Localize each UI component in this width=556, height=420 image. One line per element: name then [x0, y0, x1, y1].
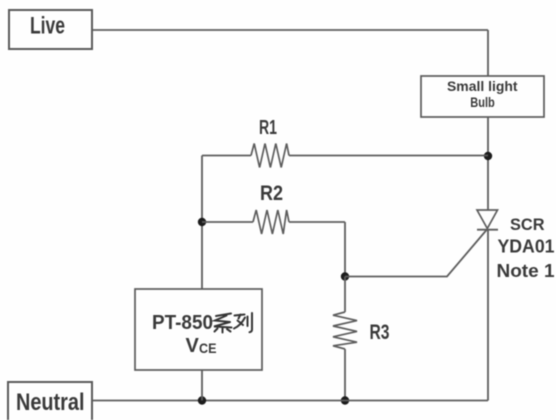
- label SCR: [510, 215, 545, 234]
- label YDA01: [498, 236, 555, 256]
- terminal Neutral: [8, 382, 92, 420]
- terminal Live: [9, 10, 92, 49]
- transistor SCR: [477, 210, 498, 230]
- wire right rail down to bulb: [487, 30, 489, 76]
- node junction PT bottom: [198, 396, 206, 404]
- node junction bulb/R1: [484, 152, 492, 160]
- svg-text:YDA01: YDA01: [498, 236, 555, 256]
- svg-text:Live: Live: [30, 13, 65, 40]
- svg-text:SCR: SCR: [510, 215, 545, 234]
- resistor R3: [333, 277, 390, 401]
- wire left rail: [201, 156, 203, 290]
- label Note 1: [497, 261, 555, 281]
- svg-text:Small light: Small light: [447, 79, 518, 94]
- svg-text:PT-850: PT-850: [152, 312, 213, 334]
- svg-text:V: V: [186, 335, 200, 357]
- svg-text:R2: R2: [260, 182, 283, 205]
- wire Live to top-right rail: [92, 29, 488, 31]
- node junction R2 branch: [198, 218, 206, 226]
- svg-text:Bulb: Bulb: [470, 95, 495, 110]
- component PT-850 series VCE: [135, 289, 262, 370]
- svg-text:R3: R3: [370, 321, 390, 344]
- wire R1 row: [202, 155, 488, 157]
- node junction gate/R3: [341, 272, 349, 280]
- wire gate: [345, 230, 487, 277]
- wire bottom rail: [92, 400, 488, 402]
- glyph 系: [214, 314, 232, 333]
- svg-text:CE: CE: [199, 341, 217, 356]
- wire bulb to SCR anode: [487, 117, 489, 210]
- node junction R3 bottom: [341, 396, 349, 404]
- wire PT box bottom: [201, 370, 203, 401]
- wire R2 row: [202, 222, 345, 277]
- svg-text:Neutral: Neutral: [16, 389, 85, 416]
- wire SCR cathode down: [487, 230, 489, 401]
- glyph 列: [234, 313, 252, 332]
- resistor R1: [251, 117, 289, 168]
- resistor R2: [253, 182, 289, 234]
- svg-text:Note 1: Note 1: [497, 261, 555, 281]
- load Small light Bulb: [421, 76, 544, 117]
- svg-text:R1: R1: [259, 117, 277, 139]
